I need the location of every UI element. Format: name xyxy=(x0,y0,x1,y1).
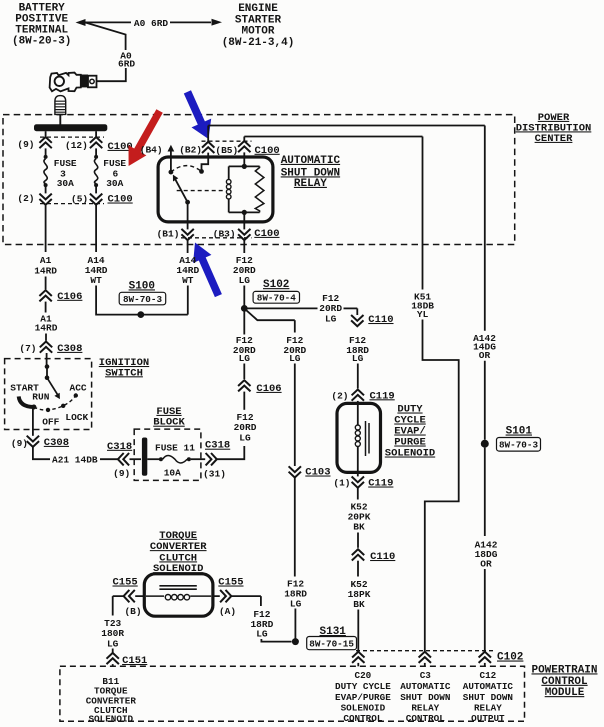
relay terminal B4 arrow xyxy=(170,150,172,158)
svg-text:RELAY: RELAY xyxy=(411,702,439,713)
wire A0 6RD horizontal xyxy=(85,21,131,23)
wire B2 to A142 column xyxy=(208,125,485,127)
wire F12 xyxy=(294,364,296,467)
relay linkage dashed xyxy=(177,190,226,192)
automatic shut down relay box xyxy=(158,157,273,222)
connector C102 (C20) xyxy=(352,652,364,663)
OFF contact dot xyxy=(46,408,50,412)
wire A142 xyxy=(484,448,486,536)
svg-text:RELAY: RELAY xyxy=(294,178,327,190)
svg-text:ACC: ACC xyxy=(70,382,87,393)
connector C308 (9) xyxy=(27,436,39,447)
label K51 18DB YL xyxy=(411,292,434,320)
wire K51 jog xyxy=(423,320,459,652)
arrowhead to battery terminal xyxy=(76,19,86,26)
wire S102 to C103 branch xyxy=(244,308,294,320)
svg-text:SOLENOID: SOLENOID xyxy=(341,702,386,713)
wire fuse 3 feed xyxy=(45,131,47,137)
wire K52 xyxy=(357,488,359,500)
torque solenoid core xyxy=(159,585,196,587)
svg-text:LG: LG xyxy=(289,353,301,364)
C100 bottom dashed face xyxy=(40,203,104,205)
svg-text:MOTOR: MOTOR xyxy=(241,26,274,38)
svg-text:OFF: OFF xyxy=(42,417,59,428)
wire T23 from C155 xyxy=(113,596,145,615)
svg-text:C12: C12 xyxy=(480,670,497,681)
wire A14 out of PDC xyxy=(95,205,97,252)
svg-text:SOLENOID: SOLENOID xyxy=(88,713,133,724)
wire fuse 11 out xyxy=(191,458,205,460)
svg-text:10A: 10A xyxy=(164,468,181,479)
svg-text:180R: 180R xyxy=(101,628,124,639)
fuse block label xyxy=(153,406,185,429)
svg-text:AUTOMATIC: AUTOMATIC xyxy=(281,155,341,167)
svg-text:BK: BK xyxy=(353,522,365,533)
svg-text:LG: LG xyxy=(107,639,119,650)
wire into ignition switch xyxy=(46,353,48,365)
connector C110 (K52) xyxy=(352,549,364,560)
wire B5 into coil xyxy=(243,152,245,166)
svg-text:ENGINE: ENGINE xyxy=(238,3,278,15)
START RUN thick contact arc xyxy=(19,396,34,407)
connector C106 (A1) xyxy=(39,290,51,301)
svg-text:A21 14DB: A21 14DB xyxy=(52,454,98,465)
wire A14 fuse6 branch xyxy=(85,255,108,286)
duty cycle solenoid label xyxy=(385,404,435,460)
svg-text:(31): (31) xyxy=(203,469,226,480)
wire B5 up to corner xyxy=(243,137,245,142)
wire S102 to C110 xyxy=(244,307,317,309)
wire fuse 6 feed xyxy=(95,131,97,137)
blue annotation arrow at B2 xyxy=(184,90,211,139)
ignition switch label xyxy=(99,357,149,379)
svg-text:(B1): (B1) xyxy=(157,229,180,240)
svg-text:FUSE 11: FUSE 11 xyxy=(155,443,195,454)
label T23 180R LG xyxy=(101,618,124,650)
connector C155 (A) xyxy=(220,590,231,602)
wire B1 branch to S100 xyxy=(176,255,199,286)
svg-text:C102: C102 xyxy=(497,652,523,664)
label F12 20RD LG xyxy=(234,412,257,444)
terminal C3 label xyxy=(400,670,451,724)
wire K52 xyxy=(357,561,359,577)
svg-text:C155: C155 xyxy=(218,577,243,589)
svg-text:A0 6RD: A0 6RD xyxy=(134,18,169,29)
splice S131 dot xyxy=(292,638,299,645)
connector C100 (B2) xyxy=(202,142,214,153)
connector C318 (31) xyxy=(206,453,217,465)
wire B3 tail xyxy=(243,240,245,253)
svg-text:(12): (12) xyxy=(65,140,88,151)
svg-text:C100: C100 xyxy=(108,194,133,206)
wire F12 from C155 xyxy=(213,596,261,606)
svg-text:(B4): (B4) xyxy=(140,145,163,156)
svg-text:C151: C151 xyxy=(122,655,147,667)
svg-text:LG: LG xyxy=(325,314,337,325)
power distribution center label xyxy=(516,112,592,145)
svg-text:C308: C308 xyxy=(44,437,69,449)
svg-text:BLOCK: BLOCK xyxy=(153,417,185,429)
label F12 18RD LG xyxy=(250,609,273,640)
svg-text:S100: S100 xyxy=(129,280,155,292)
connector C102 (C3) xyxy=(419,652,431,663)
wire B3 to S102 xyxy=(243,286,245,309)
connector C318 (9) xyxy=(118,453,129,465)
svg-text:DUTY CYCLE: DUTY CYCLE xyxy=(335,681,391,692)
svg-text:SWITCH: SWITCH xyxy=(105,367,143,379)
battery clamp icon xyxy=(50,73,81,92)
wire K51 column xyxy=(422,137,424,290)
wire F12 to S131 xyxy=(294,609,296,642)
wire A142 column xyxy=(484,126,486,331)
relay pivot dot xyxy=(169,170,174,175)
connector C100 (B5) xyxy=(238,141,250,152)
svg-text:RELAY: RELAY xyxy=(474,702,502,713)
fuse 11 xyxy=(159,457,163,461)
wire F12 to S131 xyxy=(261,639,291,642)
S100 reference box xyxy=(119,292,166,305)
ACC contact dot xyxy=(74,393,78,397)
svg-text:S102: S102 xyxy=(263,279,289,291)
label A1 14RD xyxy=(35,314,58,334)
wire A21 xyxy=(33,447,50,459)
connector C151 xyxy=(107,653,119,664)
svg-text:LG: LG xyxy=(239,433,251,444)
wire B4 to pivot xyxy=(170,157,172,170)
svg-text:OUTPUT: OUTPUT xyxy=(471,713,505,724)
wire B3 down xyxy=(243,212,245,229)
wire B2 internal jog xyxy=(202,153,209,172)
wire from START contact xyxy=(32,409,34,436)
svg-text:30A: 30A xyxy=(57,178,74,189)
svg-text:(9): (9) xyxy=(17,139,34,150)
svg-text:(9): (9) xyxy=(11,438,28,449)
wire contact to B1 xyxy=(187,202,189,229)
label A0 6RD vertical xyxy=(118,51,135,70)
ignition wiper dot xyxy=(45,375,50,380)
svg-text:OR: OR xyxy=(480,559,492,570)
svg-text:OR: OR xyxy=(479,350,491,361)
relay resistor xyxy=(255,166,264,212)
svg-text:LG: LG xyxy=(239,275,251,286)
svg-text:(B): (B) xyxy=(124,606,141,617)
wire B5 to K51 column xyxy=(244,136,422,138)
svg-text:WT: WT xyxy=(182,275,194,286)
label A142 14DG OR xyxy=(473,333,496,361)
svg-text:C110: C110 xyxy=(368,314,393,326)
powertrain control module label xyxy=(531,664,597,699)
connector C308 (7) xyxy=(40,342,52,353)
svg-text:14RD: 14RD xyxy=(34,266,57,277)
torque solenoid coil xyxy=(146,595,164,597)
wire A1 xyxy=(45,302,47,313)
svg-text:C308: C308 xyxy=(57,343,82,355)
battery positive terminal label xyxy=(12,3,71,48)
connector C155 (B) xyxy=(124,590,135,602)
connector C119 (2) xyxy=(352,390,364,401)
label F12 18RD LG xyxy=(284,579,307,610)
connector C100 (B3) xyxy=(238,229,250,240)
svg-text:(2): (2) xyxy=(331,390,348,401)
ignition feed dot xyxy=(45,364,50,369)
connector C102 (C12) xyxy=(479,652,491,663)
svg-text:BK: BK xyxy=(353,599,365,610)
svg-text:STARTER: STARTER xyxy=(235,14,282,26)
svg-text:C103: C103 xyxy=(305,467,330,479)
relay coil xyxy=(228,166,230,179)
svg-text:LG: LG xyxy=(239,353,251,364)
terminal C12 label xyxy=(463,670,514,724)
C100 relay bottom dashed face xyxy=(181,237,252,239)
fuse 6 xyxy=(94,155,98,159)
label A142 18DG OR xyxy=(475,540,498,570)
LOCK contact dot xyxy=(61,404,65,408)
wire F12 to C119 (2) xyxy=(357,364,359,389)
relay coil bottom rail xyxy=(229,211,260,213)
label F12 18RD LG xyxy=(346,335,369,364)
svg-text:C3: C3 xyxy=(420,670,432,681)
svg-text:CONTROL: CONTROL xyxy=(406,713,445,724)
terminal B11 label xyxy=(86,676,137,724)
wire F12 to S102 xyxy=(243,364,245,380)
svg-text:FUSE: FUSE xyxy=(54,158,77,169)
relay contact dot xyxy=(185,200,190,205)
wire into fuse block xyxy=(130,458,142,460)
svg-text:TORQUE: TORQUE xyxy=(159,530,197,542)
svg-text:CONTROL: CONTROL xyxy=(541,676,588,688)
wire F12 xyxy=(243,392,245,410)
svg-text:SHUT DOWN: SHUT DOWN xyxy=(400,692,450,703)
connector C103 xyxy=(289,466,301,477)
svg-text:YL: YL xyxy=(417,309,429,320)
wire F12 from fuse block xyxy=(217,446,245,459)
connector C100 (12) xyxy=(90,137,102,148)
label K52 18PK BK xyxy=(348,579,371,610)
battery bolt xyxy=(55,96,66,115)
label F12 20RD LG (B3 drop) xyxy=(233,255,256,286)
wire bolt to bus bar xyxy=(59,115,61,125)
svg-text:8W-70-4: 8W-70-4 xyxy=(257,293,296,304)
connector C100 (9) xyxy=(39,137,51,148)
svg-text:(9): (9) xyxy=(113,468,130,479)
wire A21 to C318 xyxy=(100,458,118,460)
automatic shut down relay label xyxy=(281,155,341,190)
connector C110 (F12) xyxy=(351,315,363,326)
connector C119 (1) xyxy=(352,477,364,488)
svg-text:LG: LG xyxy=(352,353,364,364)
ignition switch dashed box xyxy=(5,359,92,430)
svg-text:S101: S101 xyxy=(506,426,533,438)
svg-text:LG: LG xyxy=(290,598,302,609)
svg-text:C318: C318 xyxy=(107,441,132,453)
C102 dashed face xyxy=(356,650,495,652)
wire fuse 6 to C100 (5) xyxy=(95,187,97,193)
wire B2 up to corner xyxy=(207,126,209,143)
torque converter clutch solenoid label xyxy=(150,530,207,575)
wire between dots xyxy=(46,367,48,378)
svg-text:SHUT DOWN: SHUT DOWN xyxy=(463,692,513,703)
svg-text:AUTOMATIC: AUTOMATIC xyxy=(463,681,514,692)
relay dashed arc pivot to B2 xyxy=(171,166,202,172)
fuse block bus bar xyxy=(142,438,147,476)
wire F12 xyxy=(294,478,296,577)
S101 reference box xyxy=(497,438,541,452)
svg-text:CENTER: CENTER xyxy=(535,133,574,145)
connector C100 (5) xyxy=(90,194,102,205)
wire A1 xyxy=(45,277,47,290)
label fuse 3 30A xyxy=(54,158,77,189)
svg-text:C155: C155 xyxy=(113,577,138,589)
S102 reference box xyxy=(253,291,299,303)
svg-text:RUN: RUN xyxy=(32,392,49,403)
svg-text:SOLENOID: SOLENOID xyxy=(385,448,435,460)
wire A1 out of PDC xyxy=(45,205,47,252)
engine starter motor label xyxy=(222,3,295,49)
ignition switch blade xyxy=(47,378,58,395)
wire A142 to C102 xyxy=(484,569,486,651)
fuse block dashed box xyxy=(134,429,201,480)
svg-text:(1): (1) xyxy=(333,478,350,489)
svg-text:8W-70-15: 8W-70-15 xyxy=(309,639,354,650)
dashed detent arc xyxy=(34,396,76,411)
wire into duty cycle solenoid xyxy=(357,401,359,425)
svg-text:C106: C106 xyxy=(57,291,82,303)
arrowhead to engine starter motor xyxy=(212,19,223,26)
svg-text:(7): (7) xyxy=(19,343,36,354)
svg-text:CONTROL: CONTROL xyxy=(343,713,382,724)
duty cycle core xyxy=(365,421,367,456)
label K52 20PK BK xyxy=(348,502,371,533)
label F12 20RD LG (C110 feed) xyxy=(319,293,342,325)
label F12 20RD LG xyxy=(233,335,256,364)
svg-text:EVAP/PURGE: EVAP/PURGE xyxy=(335,692,391,703)
svg-text:(8W-21-3,4): (8W-21-3,4) xyxy=(222,37,295,49)
wire A1 xyxy=(45,334,47,341)
wire K52 xyxy=(357,533,359,548)
wire bar to fuse 11 xyxy=(147,458,159,460)
relay B2 dot xyxy=(199,169,204,174)
svg-text:6RD: 6RD xyxy=(118,58,135,69)
svg-text:8W-70-3: 8W-70-3 xyxy=(123,294,162,305)
terminal C20 label xyxy=(335,670,391,724)
wire out of solenoid xyxy=(357,447,359,477)
wire fuse 3 to C100 (2) xyxy=(45,187,47,193)
label F12 20RD LG (C103 drop) xyxy=(283,335,306,364)
wire A142 xyxy=(484,361,486,440)
svg-text:(2): (2) xyxy=(17,193,34,204)
duty cycle evap/purge solenoid box xyxy=(337,403,381,472)
svg-text:C100: C100 xyxy=(255,145,280,157)
svg-text:POWERTRAIN: POWERTRAIN xyxy=(531,664,597,676)
svg-text:(B5): (B5) xyxy=(215,145,238,156)
svg-text:20RD: 20RD xyxy=(319,303,342,314)
splice S100 dot xyxy=(137,311,144,318)
label fuse 6 30A xyxy=(103,158,126,189)
wire T23 to C151 xyxy=(112,649,114,653)
svg-text:14RD: 14RD xyxy=(35,323,58,334)
label A1 14RD xyxy=(34,255,57,277)
C100 top dashed face xyxy=(40,136,104,138)
torque converter clutch solenoid box xyxy=(144,574,213,616)
svg-text:AUTOMATIC: AUTOMATIC xyxy=(400,681,451,692)
svg-text:8W-70-3: 8W-70-3 xyxy=(499,440,538,451)
svg-text:FUSE: FUSE xyxy=(103,158,126,169)
power distribution center dashed box xyxy=(3,115,515,245)
connector C106 (F12) xyxy=(238,380,250,391)
C100 relay top dashed face xyxy=(202,140,252,142)
relay coil top rail xyxy=(229,165,260,167)
svg-text:C110: C110 xyxy=(370,551,395,563)
duty cycle coil xyxy=(355,425,360,430)
splice S102 dot xyxy=(241,305,248,312)
svg-text:20RD: 20RD xyxy=(234,422,257,433)
svg-text:(B2): (B2) xyxy=(179,145,202,156)
wire B1 tail xyxy=(187,240,189,253)
svg-text:A1: A1 xyxy=(40,255,52,266)
svg-text:C100: C100 xyxy=(254,228,279,240)
S131 reference box xyxy=(307,637,357,650)
fuse 3 xyxy=(44,155,48,159)
svg-text:C106: C106 xyxy=(256,383,281,395)
svg-text:C20: C20 xyxy=(355,670,372,681)
svg-text:LOCK: LOCK xyxy=(65,412,88,423)
wire K52 to C102 xyxy=(357,610,359,652)
svg-text:(A): (A) xyxy=(219,606,236,617)
svg-text:(8W-20-3): (8W-20-3) xyxy=(12,36,71,48)
bus bar xyxy=(34,124,107,131)
powertrain control module dashed box xyxy=(60,666,525,721)
wire A0 to battery clamp xyxy=(97,68,126,81)
svg-text:C119: C119 xyxy=(370,390,395,402)
wire A0 diagonal drop xyxy=(85,22,126,50)
svg-text:CONVERTER: CONVERTER xyxy=(150,541,207,553)
svg-text:C119: C119 xyxy=(368,478,393,490)
svg-text:C318: C318 xyxy=(205,440,230,452)
svg-text:MODULE: MODULE xyxy=(545,687,585,699)
svg-text:30A: 30A xyxy=(106,178,123,189)
splice S101 dot xyxy=(481,440,489,448)
red annotation arrow xyxy=(129,109,163,166)
svg-text:(5): (5) xyxy=(71,193,88,204)
connector C100 (B1) xyxy=(181,229,193,240)
svg-text:WT: WT xyxy=(90,275,102,286)
blue annotation arrow at B1 xyxy=(193,243,222,298)
connector C100 (2) xyxy=(39,194,51,205)
wire C151 into PCM xyxy=(112,664,114,666)
svg-text:LG: LG xyxy=(256,629,268,640)
relay switch blade xyxy=(175,179,187,202)
